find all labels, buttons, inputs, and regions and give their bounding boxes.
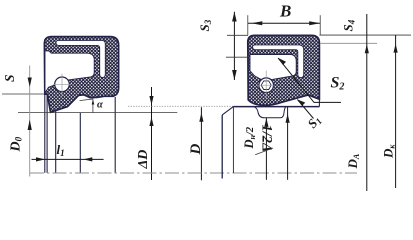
spring right view: [259, 78, 274, 93]
arrow Dn/2: [264, 118, 268, 127]
svg-text:S4: S4: [341, 19, 357, 31]
underline half-delta: [255, 148, 273, 155]
shaft surface extension gray dotted: [128, 105, 233, 107]
spring hexagon right: [261, 81, 271, 90]
dimension S3 line: [233, 12, 235, 80]
arrow S lower / D0: [28, 120, 32, 131]
lip tip level line: [18, 112, 177, 114]
arrow S4 DA: [365, 44, 369, 53]
housing bore level line: [319, 34, 411, 36]
arrow B right: [309, 21, 320, 25]
seal left view body: [44, 37, 118, 113]
svg-text:S1: S1: [304, 112, 324, 131]
angle alpha leg line: [80, 99, 93, 112]
svg-text:ΔD: ΔD: [136, 150, 151, 170]
arrow half-delta: [286, 114, 290, 123]
arrow l1 left: [36, 157, 45, 161]
leader S2: [278, 58, 341, 102]
spring crosshair right: [258, 71, 276, 100]
svg-text:S3: S3: [197, 19, 213, 31]
extension line l1 right: [79, 113, 81, 173]
dimension S / D0 line: [29, 66, 31, 177]
spring crosshair left: [53, 74, 72, 97]
arrow l1 right: [83, 157, 92, 161]
dimension B line: [248, 22, 320, 24]
arrow delta-D lower: [149, 117, 153, 126]
arrow DK: [394, 44, 398, 53]
dimension DK line: [395, 35, 397, 188]
extension line below seal left edge: [44, 94, 46, 173]
spring left view: [55, 77, 70, 92]
extension S3 lower: [226, 56, 249, 58]
extension line seal right: [114, 97, 116, 173]
dimension Dn/2 line: [265, 118, 267, 180]
arrow S2: [278, 58, 286, 65]
extension line lip: [55, 111, 57, 173]
arrow S upper: [28, 78, 32, 88]
leader S1: [297, 100, 313, 119]
dimension delta-D line: [151, 87, 153, 180]
metal insert channel right view: [253, 45, 304, 78]
arrow S3 upper: [232, 12, 237, 22]
svg-text:S: S: [2, 74, 17, 82]
svg-text:D0: D0: [9, 136, 24, 152]
dimension l1 line: [32, 158, 104, 160]
dimension half-delta line: [287, 107, 289, 180]
axis center line: [30, 172, 357, 174]
svg-text:DA: DA: [345, 153, 361, 169]
svg-text:D: D: [188, 144, 204, 156]
arrow D: [199, 113, 203, 122]
seal right edge lower part: [318, 99, 320, 106]
angle alpha arrow: [92, 99, 95, 104]
svg-text:α: α: [97, 99, 103, 110]
shaft chamfer: [222, 107, 233, 115]
metal insert channel left view: [56, 40, 105, 77]
seal right view body: [248, 35, 320, 105]
arrow B left: [251, 21, 262, 25]
svg-text:Dн/2: Dн/2: [242, 126, 257, 149]
shaft surface: [233, 106, 319, 108]
dimension D line: [200, 107, 202, 180]
arrow delta-D upper: [149, 96, 153, 105]
arrow S3 lower: [232, 70, 237, 80]
extension line inner left: [46, 94, 48, 173]
cavity left view: [45, 51, 94, 93]
extension B left: [247, 15, 249, 35]
seal bottom face line: [2, 93, 44, 95]
arrow S1: [297, 99, 305, 106]
shaft end face: [221, 115, 223, 179]
svg-text:S2: S2: [331, 75, 345, 93]
svg-text:Dк: Dк: [381, 144, 397, 159]
free OD gray line: [320, 42, 377, 44]
free lip contour: [254, 107, 286, 118]
extension B right: [319, 15, 321, 35]
svg-text:B: B: [279, 2, 291, 21]
svg-text:l1: l1: [57, 142, 65, 158]
cavity right view: [250, 55, 296, 81]
extension S3 upper: [227, 34, 248, 36]
dimension S4 DA line: [366, 14, 368, 191]
shaft chamfer edge: [232, 107, 234, 173]
